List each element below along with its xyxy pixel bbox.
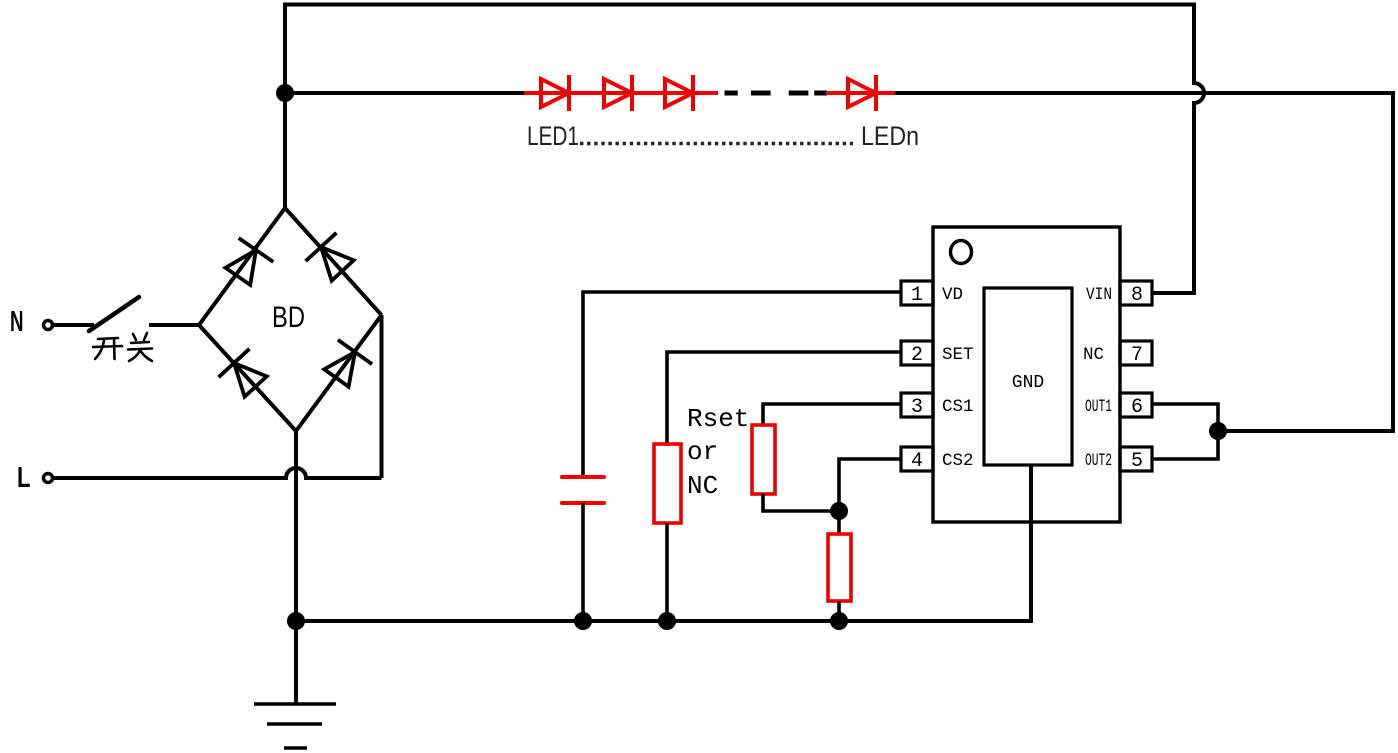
diode D_TL of bridge (226, 238, 274, 285)
ground bar 2 (267, 722, 322, 726)
wire L to bridge right vertex with hop over DC- wire (53, 468, 382, 478)
label leader dots (580, 142, 853, 146)
pin 2 box (901, 341, 933, 365)
wire ground stem (294, 621, 298, 704)
svg-text:OUT2: OUT2 (1085, 451, 1112, 471)
wire capacitor to bus (581, 503, 585, 621)
svg-text:or: or (687, 437, 718, 467)
wire bottom ground bus (296, 465, 1031, 621)
svg-text:NC: NC (1083, 345, 1104, 365)
wire dashed continuation segment 3 (789, 91, 809, 96)
label 开 (switch) hand-drawn (93, 338, 122, 359)
svg-text:CS2: CS2 (942, 451, 974, 471)
diode D_TR of bridge (306, 233, 354, 281)
capacitor C1 bottom plate (562, 501, 604, 505)
GND pad rectangle (984, 288, 1072, 465)
svg-text:GND: GND (1012, 373, 1044, 393)
svg-text:7: 7 (1131, 344, 1143, 367)
bridge rectifier BD outline (199, 93, 382, 621)
svg-text:L: L (17, 462, 31, 494)
wire pin6 OUT1 to OUT node (1152, 404, 1218, 431)
switch S1 blade (89, 297, 139, 331)
wire pin3 CS1 to R2 (763, 404, 901, 426)
svg-text:VD: VD (942, 285, 963, 305)
svg-text:VIN: VIN (1086, 285, 1112, 305)
svg-text:4: 4 (911, 450, 923, 473)
node OUT junction dot at (1218,431) (1209, 422, 1227, 440)
pin 6 box (1120, 393, 1152, 417)
svg-text:N: N (10, 306, 24, 338)
pin 7 box (1120, 341, 1152, 365)
wire pin1 VD to capacitor (583, 292, 901, 478)
wire LED string red conductor 2 (826, 91, 897, 95)
capacitor C1 top plate (562, 475, 604, 479)
svg-text:6: 6 (1131, 396, 1143, 419)
label 关 (switch) hand-drawn (128, 333, 152, 361)
terminal L open circle (44, 474, 53, 483)
svg-text:8: 8 (1131, 284, 1143, 307)
resistor R3 body (828, 534, 851, 601)
ground bar 1 (254, 702, 336, 706)
svg-text:LED1: LED1 (527, 121, 579, 151)
wire R2 to CS2 node (763, 494, 839, 511)
svg-text:LEDn: LEDn (861, 121, 919, 151)
svg-text:3: 3 (911, 396, 923, 419)
wire pin5 OUT2 to OUT node (1152, 431, 1218, 459)
LED D2 (604, 75, 632, 111)
wire LED string left segment (black) (285, 91, 526, 95)
ground bar 3 (284, 746, 307, 750)
LED Dn (848, 75, 876, 111)
LED D3 (665, 75, 693, 111)
wire pin2 SET to Rset (667, 352, 901, 446)
pin-1 marker circle O (951, 241, 972, 264)
svg-text:OUT1: OUT1 (1085, 397, 1112, 417)
op-amp U1 IC body (933, 227, 1120, 522)
wire dashed continuation segment 2 (751, 91, 771, 96)
wire dashed continuation segment 1 (725, 91, 738, 96)
diode D_BL of bridge (219, 349, 267, 397)
terminal N open circle (44, 321, 53, 330)
svg-text:Rset: Rset (687, 404, 749, 434)
wire switch to bridge left vertex (149, 323, 200, 327)
resistor R2 body (752, 425, 775, 494)
wire dashed continuation segment 4 (814, 91, 827, 96)
node junction dot CS2 at (839,511) (830, 502, 848, 520)
wire R3 to bus (837, 601, 841, 621)
LED D1 (541, 75, 569, 111)
pin 8 box (1120, 281, 1152, 305)
wire pin4 CS2 down to node (839, 459, 901, 511)
svg-text:1: 1 (911, 284, 923, 307)
svg-text:5: 5 (1131, 450, 1143, 473)
wire Rset to bus (665, 523, 669, 621)
pin 3 box (901, 393, 933, 417)
svg-text:BD: BD (272, 301, 305, 334)
node junction dot capacitor-bus (574, 612, 592, 630)
pin 4 box (901, 447, 933, 471)
svg-text:SET: SET (942, 345, 974, 365)
svg-text:NC: NC (687, 471, 718, 501)
wire N to switch (53, 323, 94, 327)
wire node to R3 (837, 511, 841, 535)
wire top loop from DC+ node up over to VIN pin 8 with hop over LED wire (285, 5, 1204, 294)
pin 5 box (1120, 447, 1152, 471)
resistor Rset body (654, 444, 681, 523)
label Rset or NC (687, 404, 749, 501)
wire LED string right segment to right rail down to OUT node (895, 93, 1393, 431)
svg-text:2: 2 (911, 344, 923, 367)
svg-text:CS1: CS1 (942, 397, 974, 417)
node DC- junction dot at (296,621) (287, 612, 305, 630)
diode D_BR of bridge (324, 340, 372, 387)
node junction dot Rset-bus (658, 612, 676, 630)
node A junction dot DC+ at (285,93) (276, 84, 294, 102)
pin 1 box (901, 281, 933, 305)
wire LED string red conductor 1 (524, 91, 718, 95)
node junction dot R3-bus (830, 612, 848, 630)
